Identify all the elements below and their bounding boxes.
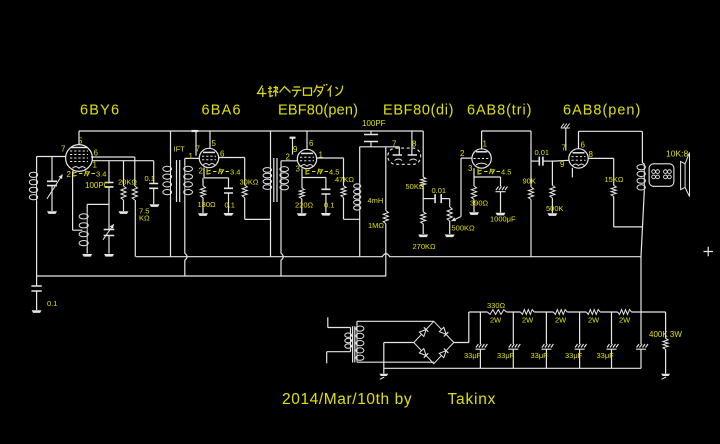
diode D3 (419, 349, 428, 358)
svg-text:3: 3 (468, 164, 473, 173)
power transformer (327, 317, 364, 363)
svg-text:15KΩ: 15KΩ (605, 175, 624, 184)
wire grid tube5 (461, 158, 472, 216)
svg-text:IFT: IFT (174, 145, 186, 154)
wire ground bus (37, 275, 386, 277)
resistor 7.5K (132, 186, 137, 200)
svg-text:0.01: 0.01 (535, 148, 550, 157)
pin 3 label t3 (296, 165, 301, 174)
IFT2 transformer (263, 158, 289, 202)
ground VC1 (47, 211, 57, 214)
svg-text:390Ω: 390Ω (470, 199, 489, 208)
svg-text:9: 9 (293, 145, 298, 154)
wire cathode tube5 (474, 168, 501, 186)
inductor 4mH (354, 147, 361, 257)
capacitor 1000uF (496, 187, 508, 213)
svg-text:0.1: 0.1 (225, 201, 235, 210)
resistor 90K (528, 161, 533, 257)
pin 1 label (93, 161, 98, 170)
tube U5 6AB8tri (472, 149, 491, 168)
svg-text:0.1: 0.1 (145, 174, 155, 183)
svg-text:9: 9 (560, 160, 565, 169)
pin 2 label t2 (199, 167, 204, 176)
label 100PF (362, 119, 386, 128)
capacitor 0.01 det (423, 194, 450, 203)
ground pot (445, 235, 455, 238)
pin 3 label t5 (468, 164, 473, 173)
pin 2 label t5 (460, 149, 465, 158)
svg-text:KΩ: KΩ (139, 214, 150, 223)
wire filter rail (469, 311, 666, 313)
wire secondary top (357, 320, 434, 322)
ground 0.1 bus (32, 310, 42, 313)
ground 270K (418, 235, 428, 238)
wire grid1 line (37, 156, 66, 158)
diode D2 (439, 327, 448, 336)
label 500K grid (546, 204, 564, 213)
svg-text:2W: 2W (588, 316, 600, 325)
label 220 (295, 201, 314, 210)
label 0.1 stage2 (225, 201, 235, 210)
capacitor 100PC (105, 161, 114, 205)
svg-text:2W: 2W (619, 316, 631, 325)
tube U3 EBF80 (297, 149, 316, 168)
wire screen line tube2 (219, 158, 245, 186)
capacitor 33uF #6 (636, 312, 648, 368)
wire IFT2 primary bottom (270, 190, 272, 257)
wire plate riser tube1 (78, 131, 80, 145)
label 1000uF (490, 215, 516, 224)
label 47K (335, 175, 354, 184)
svg-text:2: 2 (286, 153, 291, 162)
pin 1 label t2 (189, 152, 194, 161)
pin 8 label t4 (412, 139, 417, 148)
label 6BA6 (202, 103, 242, 119)
node AVC stub tube2 (192, 131, 199, 156)
wire top signal rail (79, 130, 423, 132)
pin 5 label t2 (212, 139, 217, 148)
svg-text:6BA6: 6BA6 (202, 103, 242, 119)
wire IFT1 primary bottom (170, 196, 172, 257)
resistor 220 (299, 178, 304, 214)
capacitor 0.1 stage2 (224, 178, 233, 213)
svg-text:5: 5 (212, 139, 217, 148)
pin 7 label t6 (562, 144, 567, 153)
label 390 (470, 199, 489, 208)
label 330 (487, 301, 506, 310)
ground 180 (198, 213, 208, 216)
label 33uF #3 (531, 351, 549, 360)
svg-text:EBF80(di): EBF80(di) (383, 103, 454, 119)
resistor 15K (611, 185, 642, 227)
label 100PC (85, 181, 110, 190)
label 0.1 bus (47, 299, 57, 308)
ground VC2 (104, 254, 114, 257)
wire osc top (87, 203, 109, 205)
wire plate tube6 (579, 131, 643, 148)
label 400K 3W (649, 330, 682, 339)
wire avc branch (422, 131, 424, 177)
wire plate tube5 (482, 131, 531, 161)
svg-text:220Ω: 220Ω (295, 201, 314, 210)
svg-text:270KΩ: 270KΩ (413, 242, 437, 251)
wire pin1 line (92, 160, 154, 162)
svg-text:30KΩ: 30KΩ (240, 178, 259, 187)
date text (282, 391, 496, 408)
label 10K:8 (666, 149, 688, 159)
pin 7 label t2 (196, 145, 201, 154)
label R4 2W (588, 316, 600, 325)
label EBF80(di) (383, 103, 454, 119)
capacitor 0.1 stage1 (149, 161, 158, 204)
label IFT (174, 145, 186, 154)
svg-text:2W: 2W (490, 316, 502, 325)
tube U4 EBF80 diode (388, 148, 421, 164)
label 33uF #1 (464, 351, 482, 360)
svg-text:6BY6: 6BY6 (80, 103, 120, 119)
pin 9 label t3 (293, 145, 298, 154)
svg-text:500K: 500K (546, 204, 564, 213)
svg-text:3.4: 3.4 (96, 170, 106, 179)
title text ４球ヘテロダイン (258, 84, 343, 97)
svg-text:0.01: 0.01 (432, 186, 447, 195)
pin 1 label t5 (483, 139, 488, 148)
svg-text:4mH: 4mH (368, 196, 384, 205)
label 6AB8(pen) (563, 103, 641, 119)
heater label tube5 (478, 168, 511, 177)
capacitor 33uF #2 (508, 312, 520, 368)
pin 6 label t2 (220, 150, 225, 159)
svg-text:2W: 2W (522, 316, 534, 325)
svg-text:400K 3W: 400K 3W (649, 330, 682, 339)
bridge rectifier (414, 321, 454, 363)
svg-text:8: 8 (589, 150, 594, 159)
svg-text:3: 3 (296, 165, 301, 174)
resistor 50K (421, 177, 426, 212)
svg-text:33μF: 33μF (464, 351, 482, 360)
output transformer primary (637, 131, 645, 256)
wire secondary bottom (357, 361, 434, 363)
svg-text:180Ω: 180Ω (198, 200, 217, 209)
wire filter ground rail (384, 367, 641, 369)
IFT1 transformer (163, 160, 193, 202)
wire diode plate lead 8 (411, 131, 413, 155)
wire pin6 line (91, 157, 135, 186)
wire IFT1 secondary top (185, 158, 200, 165)
pin 6 label t3 (309, 139, 314, 148)
label 90K (523, 177, 536, 186)
pin 5 label (78, 137, 83, 146)
resistor 30K (242, 185, 270, 219)
svg-text:2: 2 (460, 149, 465, 158)
diode D1 (419, 327, 428, 336)
pin 6 label t6 (581, 141, 586, 150)
ground 0.1 stage1 (150, 204, 160, 207)
variable capacitor VC1 (47, 157, 63, 212)
svg-text:2W: 2W (555, 316, 567, 325)
svg-text:100PC: 100PC (85, 181, 110, 190)
wire cathode tube2 (204, 168, 229, 178)
speaker transformer can (649, 164, 674, 187)
capacitor 0.01 coupling (531, 157, 554, 166)
resistor R4 2W (586, 310, 600, 315)
wire B+ rail (136, 254, 641, 257)
wire cathode tube1 (73, 171, 83, 230)
svg-text:EBF80(pen): EBF80(pen) (278, 103, 358, 119)
svg-text:500KΩ: 500KΩ (452, 224, 476, 233)
svg-text:0.1: 0.1 (324, 201, 334, 210)
resistor 47K (341, 186, 360, 220)
svg-text:2014/Mar/10th by: 2014/Mar/10th by (282, 391, 412, 408)
label 0.1 stage3 (324, 201, 334, 210)
label 330 2W (490, 316, 502, 325)
ground 20K (119, 211, 129, 214)
wire B+ riser (640, 257, 642, 312)
pin 1 label t3 (319, 151, 324, 160)
tube U2 6BA6 (199, 148, 218, 167)
svg-text:4.5: 4.5 (501, 168, 511, 177)
label 50K (406, 182, 425, 191)
svg-text:8: 8 (412, 139, 417, 148)
wire cathode tube6 (571, 168, 573, 178)
label 6AB8(tri) (467, 103, 532, 119)
capacitor 33uF #5 (607, 312, 619, 368)
resistor 390 (471, 186, 476, 212)
ground 400K (661, 374, 670, 380)
ground L2 (82, 254, 92, 257)
wire grid to pot arrow (452, 217, 462, 222)
svg-text:0.1: 0.1 (47, 299, 57, 308)
label 33uF #4 (565, 351, 583, 360)
capacitor 100PF (364, 131, 378, 147)
ground 0.1 stage3 (321, 213, 331, 216)
svg-text:90K: 90K (523, 177, 536, 186)
svg-text:33μF: 33μF (565, 351, 583, 360)
wire screen tube6 (588, 158, 614, 185)
label R5 2W (619, 316, 631, 325)
capacitor 0.1 stage3 (321, 178, 330, 213)
svg-text:33μF: 33μF (497, 351, 515, 360)
wire bridge plus (454, 312, 469, 343)
wire grid tube6 (554, 159, 569, 162)
svg-text:20KΩ: 20KΩ (118, 178, 137, 187)
tube U1 6BY6 (66, 145, 93, 172)
svg-text:6AB8(pen): 6AB8(pen) (563, 103, 641, 119)
potentiometer 500K (447, 199, 452, 234)
resistor 270K (421, 212, 426, 234)
capacitor 33uF #4 (575, 312, 587, 368)
wire IFT2 primary top (270, 131, 272, 167)
ground 500K (547, 213, 557, 216)
svg-text:1: 1 (93, 161, 98, 170)
oscillator coil L2 (79, 204, 88, 253)
wire screen line tube3 (317, 158, 344, 186)
svg-text:6: 6 (94, 149, 99, 158)
pin 2 label (67, 170, 72, 179)
resistor R2 2W (520, 310, 534, 315)
svg-text:1: 1 (483, 139, 488, 148)
tube U6 6AB8pen (569, 149, 588, 168)
label 270K (413, 242, 437, 251)
svg-text:100PF: 100PF (362, 119, 386, 128)
heater label tube3 (306, 168, 339, 177)
wire detector node (360, 146, 400, 148)
label 0.01 det (432, 186, 447, 195)
resistor 400K 3W (663, 312, 668, 374)
label 1M (368, 221, 384, 230)
node plus mark (704, 247, 714, 257)
label 33uF #2 (497, 351, 515, 360)
ground 390 (469, 212, 479, 215)
wire cathode tube3 (302, 169, 326, 178)
capacitor 33uF #1 (475, 312, 487, 368)
wire diode plate lead 7 (398, 147, 400, 155)
svg-text:330Ω: 330Ω (487, 301, 506, 310)
ground 220 (297, 213, 307, 216)
wire plate riser tube2 (209, 131, 211, 148)
wire IFT2 secondary top (281, 161, 297, 166)
node AVC stub tube3 (290, 138, 296, 155)
label 0.1 stage1 (145, 174, 155, 183)
diode D4 (439, 349, 448, 358)
label R3 2W (555, 316, 567, 325)
wire plate riser tube3 (306, 131, 308, 149)
label 33uF #5 (597, 351, 615, 360)
wire IFT1 secondary bottom (185, 196, 187, 276)
ground 0.1 stage2 (224, 213, 234, 216)
capacitor 0.1 bus (31, 276, 41, 310)
ground 1000uF (496, 213, 506, 216)
heater label tube2 (207, 168, 240, 177)
label 4mH (368, 196, 384, 205)
wire bridge minus (384, 343, 414, 374)
label 6BY6 (80, 103, 120, 119)
label 15K (605, 175, 624, 184)
label 7.5K (139, 207, 150, 223)
svg-text:1: 1 (189, 152, 194, 161)
svg-text:1000μF: 1000μF (490, 215, 516, 224)
resistor R3 2W (553, 310, 567, 315)
pin 8 label t6 (589, 150, 594, 159)
pin 6 label (94, 149, 99, 158)
label 500Kpot (452, 224, 476, 233)
speaker (681, 153, 690, 197)
svg-text:7: 7 (61, 145, 66, 154)
variable capacitor VC2 (103, 204, 114, 253)
svg-text:6: 6 (309, 139, 314, 148)
resistor 1M (383, 147, 388, 276)
label 20K (118, 178, 137, 187)
svg-text:Takinx: Takinx (448, 391, 497, 408)
heater label tube1 (73, 170, 106, 179)
wire IFT1 primary top (170, 131, 172, 165)
pin 2 label t3 (286, 153, 291, 162)
svg-text:33μF: 33μF (531, 351, 549, 360)
wire screen feed x134.8 (134, 200, 136, 257)
label R2 2W (522, 316, 534, 325)
resistor 20K (121, 161, 126, 211)
label 0.01 coupling (535, 148, 550, 157)
label EBF80(pen) (278, 103, 358, 119)
resistor 330 2W (487, 310, 506, 315)
capacitor 33uF #3 (541, 312, 553, 368)
label 180 (198, 200, 217, 209)
pin 7 label (61, 145, 66, 154)
svg-text:6: 6 (581, 141, 586, 150)
resistor R5 2W (618, 310, 632, 315)
svg-text:2: 2 (67, 170, 72, 179)
chassis stub tube6 (561, 124, 570, 151)
svg-text:10K:8: 10K:8 (666, 149, 688, 159)
svg-text:47KΩ: 47KΩ (335, 175, 354, 184)
svg-text:6AB8(tri): 6AB8(tri) (467, 103, 532, 119)
svg-text:50KΩ: 50KΩ (406, 182, 425, 191)
pin 7 label t4 (392, 139, 397, 148)
wire IFT2 secondary bottom (281, 191, 283, 277)
svg-text:7: 7 (392, 139, 397, 148)
pin 9 label t6 (560, 160, 565, 169)
label 30K (240, 178, 259, 187)
ground PSU (379, 374, 388, 380)
resistor 500K grid (550, 161, 555, 213)
svg-text:1MΩ: 1MΩ (368, 221, 384, 230)
antenna coil L1 (29, 157, 37, 277)
resistor 180 (200, 178, 205, 213)
svg-text:33μF: 33μF (597, 351, 615, 360)
svg-text:3.4: 3.4 (230, 168, 240, 177)
svg-text:2: 2 (199, 167, 204, 176)
